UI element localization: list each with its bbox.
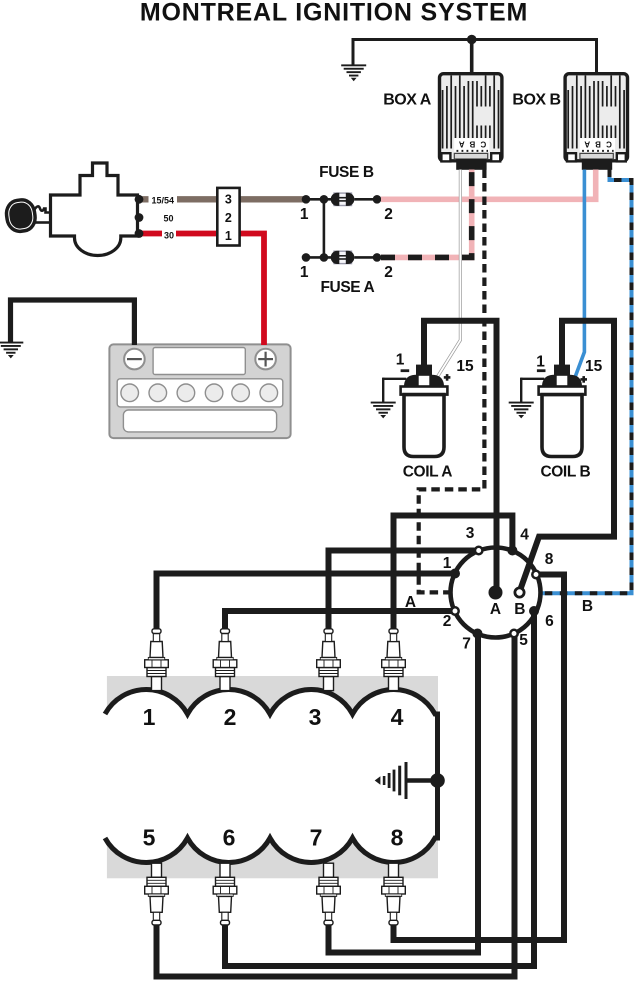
node fuse B terminal 2 [373, 195, 382, 204]
node distributor terminal 5 [510, 630, 517, 637]
box A ignition module [440, 74, 502, 170]
svg-text:15: 15 [456, 358, 474, 375]
ground coil A [371, 402, 396, 419]
spark plug 4 [382, 629, 406, 691]
svg-text:2: 2 [384, 264, 393, 281]
svg-text:15: 15 [585, 358, 603, 375]
wire black dashed box A to distributor pickup A [419, 170, 485, 593]
svg-text:1: 1 [300, 206, 309, 223]
node distributor terminal 4 [507, 546, 517, 556]
wire distributor 5 to plug 5 [157, 634, 515, 977]
svg-text:3: 3 [309, 704, 322, 730]
coil B [521, 365, 585, 457]
ground engine block [375, 762, 438, 799]
svg-text:15/54: 15/54 [152, 196, 175, 206]
svg-text:BOX A: BOX A [383, 92, 432, 109]
svg-text:3: 3 [225, 193, 232, 207]
node switch terminal 15/54 [135, 195, 144, 204]
spark plug 3 [317, 629, 341, 691]
battery B1 [109, 344, 290, 438]
svg-text:FUSE B: FUSE B [319, 164, 374, 181]
wire pink-black fuse A to box A [381, 170, 472, 258]
wire distributor 7 to plug 7 [329, 634, 479, 953]
node fuse A terminal 1 [302, 253, 311, 262]
svg-text:6: 6 [545, 613, 554, 630]
distributor [451, 548, 541, 638]
svg-text:B: B [582, 598, 593, 615]
node rail junction [467, 35, 477, 45]
wire distributor 2 to plug 2 [225, 611, 455, 630]
svg-text:1: 1 [143, 704, 156, 730]
svg-text:7: 7 [462, 636, 471, 653]
svg-text:MONTREAL IGNITION SYSTEM: MONTREAL IGNITION SYSTEM [140, 0, 528, 27]
node distributor terminal 3 [475, 547, 482, 554]
svg-text:4: 4 [391, 704, 404, 730]
wire top ground rail [353, 40, 597, 73]
wire distributor 1 to plug 1 [157, 574, 456, 630]
svg-text:1: 1 [396, 352, 405, 369]
svg-text:1: 1 [536, 354, 545, 371]
spark plug 6 [213, 863, 237, 925]
wire fuse 1 to fuse 1 vertical [323, 199, 326, 257]
ground coil B [509, 402, 534, 419]
svg-text:FUSE A: FUSE A [320, 279, 374, 296]
svg-text:7: 7 [310, 825, 323, 851]
fuse B [331, 193, 355, 206]
wire white box A to coil A 15 [438, 170, 461, 377]
node engine ground junction [430, 773, 445, 788]
svg-text:2: 2 [443, 613, 452, 630]
node distributor terminal 1 [450, 569, 460, 579]
ignition switch S1 [51, 163, 138, 256]
svg-text:30: 30 [164, 231, 174, 241]
wire battery negative to ground [11, 300, 135, 345]
coil A [383, 365, 447, 457]
node distributor terminal 8 [532, 571, 539, 578]
svg-text:A: A [490, 601, 501, 618]
svg-text:8: 8 [545, 551, 554, 568]
node fuse B junction [320, 195, 329, 204]
key [3, 196, 51, 235]
connector block 3-2-1 [217, 188, 239, 246]
svg-text:4: 4 [520, 527, 529, 544]
svg-text:50: 50 [163, 213, 173, 223]
wire box A to rail [470, 40, 474, 73]
spark plug 8 [382, 863, 406, 925]
ground top rail [341, 64, 366, 81]
svg-text:BOX B: BOX B [512, 92, 560, 109]
wire distributor 4 to plug 4 [394, 516, 513, 630]
label 30 [162, 230, 176, 240]
svg-text:COIL A: COIL A [403, 464, 452, 481]
svg-text:2: 2 [225, 211, 232, 225]
svg-text:1: 1 [443, 555, 452, 572]
spark plug 5 [145, 863, 169, 925]
wire distributor 8 to plug 8 [394, 575, 565, 941]
wire HT coil B to distributor B [521, 321, 615, 589]
label 15/54 [149, 194, 178, 205]
spark plug 7 [317, 863, 341, 925]
node distributor terminal 2 [451, 607, 458, 614]
svg-text:COIL B: COIL B [540, 464, 590, 481]
wire 15/54 brown switch to fuse B [139, 196, 306, 202]
svg-text:B: B [514, 601, 525, 618]
node distributor B [515, 588, 524, 597]
svg-text:1: 1 [225, 229, 232, 243]
node fuse A terminal 2 [373, 253, 382, 262]
engine block [105, 676, 438, 878]
wire fuse A link [306, 256, 377, 259]
wire distributor 3 to plug 3 [329, 551, 479, 630]
svg-text:8: 8 [391, 825, 404, 851]
node switch terminal 50 [135, 213, 144, 222]
wire blue-black dashed box B to distributor pickup B [541, 170, 632, 594]
fuse A [331, 251, 355, 264]
spark plug 1 [145, 629, 169, 691]
wire pink fuse B to box B [381, 170, 596, 200]
svg-text:2: 2 [224, 704, 237, 730]
node switch terminal 30 [135, 229, 144, 238]
svg-text:6: 6 [223, 825, 236, 851]
ground battery [0, 342, 23, 359]
node fuse B terminal 1 [302, 195, 311, 204]
box B ignition module [565, 74, 627, 170]
spark plug 2 [213, 629, 237, 691]
wire 30 red switch to battery positive [139, 234, 264, 346]
svg-text:5: 5 [143, 825, 156, 851]
node distributor terminal 6 [529, 606, 539, 616]
wire distributor 6 to plug 6 [225, 611, 534, 966]
node distributor center A [489, 586, 503, 600]
svg-text:2: 2 [384, 206, 393, 223]
svg-text:5: 5 [519, 632, 528, 649]
node fuse A junction [320, 253, 329, 262]
node distributor terminal 7 [473, 629, 483, 639]
svg-text:3: 3 [466, 525, 475, 542]
svg-text:1: 1 [300, 264, 309, 281]
wire HT coil A to distributor center [424, 321, 497, 593]
wire blue box B to coil B 15 [575, 170, 584, 377]
wire fuse B link [306, 198, 377, 201]
